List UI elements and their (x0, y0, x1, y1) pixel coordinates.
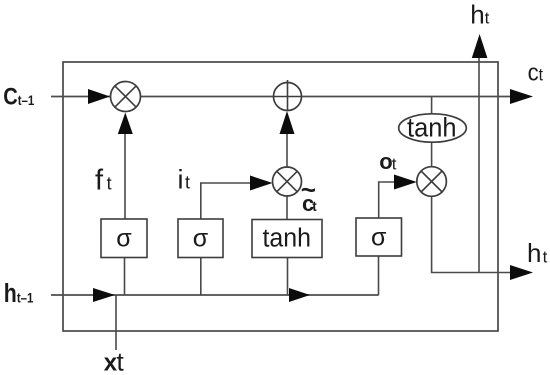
svg-text:t: t (543, 247, 548, 266)
svg-text:t: t (107, 174, 112, 194)
svg-text:tanh: tanh (407, 112, 457, 142)
svg-text:t: t (392, 154, 397, 173)
svg-text:σ: σ (116, 224, 132, 252)
svg-text:σ: σ (371, 224, 387, 252)
svg-text:σ: σ (193, 224, 209, 252)
svg-text:i: i (178, 164, 184, 194)
svg-text:t: t (312, 199, 317, 214)
svg-text:o: o (379, 149, 392, 174)
svg-text:c: c (528, 59, 539, 86)
svg-text:t: t (117, 347, 125, 375)
svg-text:t: t (539, 65, 544, 85)
svg-text:t: t (485, 9, 490, 28)
svg-text:tanh: tanh (263, 225, 312, 253)
svg-text:t: t (185, 172, 190, 192)
svg-text:f: f (95, 165, 104, 197)
svg-text:h: h (470, 0, 484, 30)
svg-text:h: h (527, 238, 541, 268)
